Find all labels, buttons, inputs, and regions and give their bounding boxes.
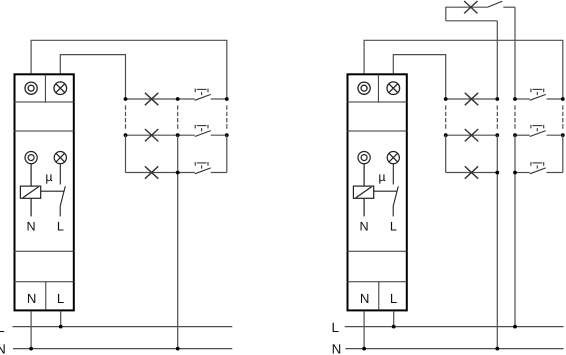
terminal 1 of U1 (input, double circle) bbox=[25, 82, 37, 94]
internal terminal symbol of U2 (double circle) bbox=[358, 152, 370, 164]
lamp return wire to N bbox=[177, 135, 179, 348]
relay coil K1 (box with diagonal) bbox=[20, 164, 40, 217]
junction U1 line lead on L rail bbox=[59, 325, 63, 329]
junction node B1 (row1 neutral) bbox=[176, 97, 180, 101]
terminal 2 of U2 (lamp output, circle-X) bbox=[387, 82, 400, 95]
lamp E4 bbox=[465, 93, 478, 105]
pushbutton S1 bbox=[195, 89, 211, 101]
dashed wire: line extension right bbox=[514, 105, 516, 129]
wire: switch S7 contact to L riser bbox=[503, 6, 515, 8]
dashed wire: control extension right bbox=[562, 105, 564, 129]
wire row3: pushbutton S3 contact to node bbox=[211, 172, 227, 174]
svg-text:N: N bbox=[360, 291, 370, 306]
dashed wire: lamp feed extension right bbox=[445, 105, 447, 129]
junction node F2 (row2 line) bbox=[513, 133, 517, 137]
wire row3: L node to pushbutton S6 bbox=[515, 172, 530, 174]
pushbutton S5 bbox=[530, 125, 546, 137]
wire: L column riser (col3) bbox=[514, 7, 516, 97]
module U1 (impulse relay, DIN module) bbox=[14, 74, 75, 310]
wire: top auxiliary branch feed to lamp E7 bbox=[446, 7, 488, 21]
module U2 line lead to L rail bbox=[393, 311, 395, 326]
N rail right bbox=[345, 348, 563, 350]
wire: top branch jog to N riser bbox=[446, 20, 498, 22]
lamp E2 bbox=[145, 129, 158, 141]
wire row1: L node to pushbutton S4 bbox=[515, 98, 530, 100]
dashed wire: control extension bbox=[226, 105, 228, 129]
wire row3: pushbutton S6 contact to node bbox=[547, 172, 563, 174]
svg-text:µ: µ bbox=[378, 170, 385, 184]
junction U2 neutral lead on N rail bbox=[362, 347, 366, 351]
internal lamp symbol (circle-X) bbox=[54, 152, 66, 164]
lamp E1 bbox=[145, 93, 158, 105]
junction node D2 (row2 lamp feed) bbox=[444, 133, 448, 137]
junction node G2 (row2 control) bbox=[561, 133, 565, 137]
switch S7 (one-way switch, top) bbox=[487, 1, 502, 7]
pushbutton feed wire to L rail right bbox=[514, 135, 516, 326]
wire row2: pushbutton S2 contact to node bbox=[211, 134, 227, 136]
junction node B3 (row3 neutral) bbox=[176, 171, 180, 175]
row 1 right: lamp E4 branch bbox=[446, 98, 498, 100]
svg-text:L: L bbox=[331, 320, 338, 335]
module U2 neutral lead to N rail bbox=[363, 311, 365, 348]
wire: control drop row2-row3 bbox=[226, 135, 228, 172]
N rail left bbox=[13, 348, 232, 350]
junction node E3 (row3 neutral) bbox=[495, 171, 499, 175]
junction node C2 (row2 control) bbox=[225, 133, 229, 137]
contact of U2 (switch blade with link) bbox=[374, 164, 399, 217]
svg-text:N: N bbox=[27, 291, 37, 306]
wire W4: module U2 terminal 1 up and across to pushbutton column bbox=[364, 40, 563, 97]
wire: lamp feed drop row2-row3 bbox=[125, 135, 127, 172]
wire row1: pushbutton S4 contact to node bbox=[547, 98, 563, 100]
wire row1: lamp E1 branch bbox=[126, 98, 195, 100]
svg-text:L: L bbox=[390, 291, 397, 306]
dashed wire: neutral extension right bbox=[496, 105, 498, 129]
svg-text:L: L bbox=[57, 291, 64, 306]
svg-text:N: N bbox=[359, 219, 368, 233]
wire row2: pushbutton S5 contact to node bbox=[547, 134, 563, 136]
junction node F1 (row1 line) bbox=[513, 97, 517, 101]
module U1 internal section lines bbox=[14, 74, 75, 310]
L rail right bbox=[345, 326, 564, 328]
wire: lamp feed drop row2-row3 right bbox=[445, 135, 447, 172]
junction node B2 (row2 neutral) bbox=[176, 133, 180, 137]
svg-text:N: N bbox=[0, 341, 6, 355]
junction node A2 (row2 lamp feed) bbox=[124, 133, 128, 137]
lamp E7 (top auxiliary lamp) bbox=[464, 1, 477, 13]
pushbutton S6 bbox=[530, 162, 546, 174]
wire: N column riser (col2 upper) bbox=[496, 21, 498, 97]
module U2 outline bbox=[348, 74, 407, 310]
row 3 right: lamp E6 branch bbox=[446, 172, 498, 174]
module U1 line lead to L rail bbox=[60, 311, 62, 326]
junction node D1 (row1 lamp feed) bbox=[444, 97, 448, 101]
pushbutton S2 bbox=[195, 125, 211, 137]
junction U1 neutral lead on N rail bbox=[29, 347, 33, 351]
module U2 internal section lines bbox=[347, 74, 408, 310]
svg-text:N: N bbox=[26, 219, 35, 233]
module U2 (impulse relay, DIN module) bbox=[347, 74, 408, 310]
junction node E2 (row2 neutral) bbox=[495, 133, 499, 137]
wire row3: lamp E3 branch bbox=[126, 172, 195, 174]
junction node F3 (row3 line) bbox=[513, 171, 517, 175]
junction node E1 (row1 neutral) bbox=[495, 97, 499, 101]
svg-text:µ: µ bbox=[45, 170, 52, 184]
row 2 right: lamp E5 branch bbox=[446, 134, 498, 136]
contact of U1 (switch blade with link) bbox=[41, 164, 66, 217]
svg-text:L: L bbox=[57, 219, 64, 233]
module U1 outline bbox=[15, 74, 74, 310]
svg-text:L: L bbox=[390, 219, 397, 233]
junction node G1 (row1 control) bbox=[561, 97, 565, 101]
wire row1: pushbutton S1 contact to node bbox=[211, 98, 227, 100]
lamp E6 bbox=[465, 166, 478, 178]
internal lamp symbol of U2 (circle-X) bbox=[387, 152, 399, 164]
junction pushbutton feed on L rail bbox=[513, 325, 517, 329]
lamp return wire to N rail right bbox=[496, 135, 498, 348]
pushbutton S3 bbox=[195, 162, 211, 174]
junction node A1 (row1 lamp feed) bbox=[124, 97, 128, 101]
junction U2 line lead on L rail bbox=[392, 325, 396, 329]
internal terminal symbol (double circle) bbox=[25, 152, 37, 164]
wire W2: module U1 terminal 2 up and across to lamp column bbox=[60, 55, 125, 98]
lamp E3 bbox=[145, 166, 158, 178]
lamp E5 bbox=[465, 129, 478, 141]
pushbutton S4 bbox=[530, 89, 546, 101]
wire row2: lamp E2 branch bbox=[126, 134, 195, 136]
svg-text:L: L bbox=[0, 320, 5, 335]
terminal 2 of U1 (lamp output, circle-X) bbox=[54, 82, 67, 95]
terminal 1 of U2 (input, double circle) bbox=[358, 82, 370, 94]
junction node C1 (row1 control) bbox=[225, 97, 229, 101]
wire: control drop row2-row3 right bbox=[562, 135, 564, 172]
wire W1: module U1 terminal 1 up and across to pushbutton column bbox=[31, 40, 227, 97]
relay coil K2 (box with diagonal) bbox=[353, 164, 373, 217]
dashed wire: neutral extension bbox=[177, 105, 179, 129]
dashed wire: lamp feed extension bbox=[125, 105, 127, 129]
svg-text:N: N bbox=[332, 341, 342, 355]
wire row2: L node to pushbutton S5 bbox=[515, 134, 530, 136]
wire W5: module U2 terminal 2 up and across to lamp column bbox=[393, 55, 445, 98]
module U1 neutral lead to N rail bbox=[30, 311, 32, 348]
junction lamp return on N rail bbox=[176, 347, 180, 351]
L rail left bbox=[13, 326, 233, 328]
junction lamp return on N rail right bbox=[495, 347, 499, 351]
